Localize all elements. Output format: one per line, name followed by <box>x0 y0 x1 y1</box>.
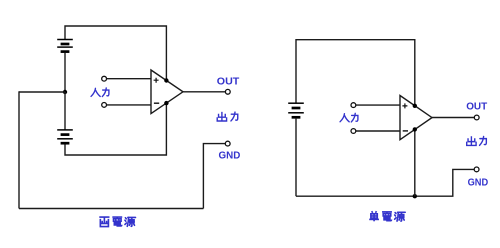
svg-text:OUT: OUT <box>217 77 240 88</box>
wire: U1 minus input <box>107 104 151 106</box>
battery B2 (lower cell pair, left circuit) <box>57 130 73 143</box>
op-amp U1 triangle <box>151 70 183 114</box>
wire: U2 output <box>432 117 474 119</box>
wire: right V+ rail from battery B3 top over to op-amp U2 top edge <box>296 40 415 106</box>
dot: V- rail on U2 lower edge <box>413 127 417 131</box>
wire: junction down to battery B2 <box>64 92 66 131</box>
wire: U2 lower edge down to bottom rail <box>414 130 416 197</box>
wire: U2 minus input <box>356 130 400 132</box>
label: 出力 (output) left circuit <box>217 112 238 121</box>
dot: V- rail on U1 lower edge <box>164 101 168 105</box>
terminal: right circuit GND <box>474 167 479 172</box>
junction dot: mid-supply node <box>63 90 67 94</box>
caption: 単電源 (single supply) <box>369 211 405 221</box>
terminal: left circuit input - <box>102 103 107 108</box>
wire: battery B2 minus to V- rail under op-amp <box>65 103 166 155</box>
wire: battery B1 minus down to junction node <box>64 53 66 92</box>
svg-text:GND: GND <box>468 178 489 189</box>
terminal: left circuit OUT <box>225 89 230 94</box>
battery B1 (upper cell pair, left circuit) <box>57 40 73 52</box>
wire: battery B3 minus down to bottom rail <box>295 119 297 197</box>
label: 出力 (output) right circuit <box>467 136 487 145</box>
junction dot: V- wire on bottom rail <box>413 194 417 198</box>
battery B3 (right circuit, single supply) <box>288 103 304 117</box>
wire: riser up to GND terminal stub <box>203 144 225 209</box>
marker: U2 plus input <box>402 103 407 108</box>
label: 入力 (input) right circuit <box>340 113 358 122</box>
terminal: left circuit input + <box>102 76 107 81</box>
wire: junction left to ground rail <box>19 91 65 93</box>
terminal: right circuit input - <box>351 129 356 134</box>
wire: left V+ rail from battery B1 top over to op-amp U1 top edge <box>65 26 166 80</box>
wire: U2 plus input <box>356 104 400 106</box>
wire: U1 output <box>183 91 225 93</box>
wire: bottom rail of right circuit and riser to GND stub <box>296 169 474 196</box>
wire: left ground rail down <box>18 91 20 208</box>
svg-text:GND: GND <box>219 151 241 162</box>
terminal: right circuit input + <box>351 103 356 108</box>
marker: U2 minus input <box>403 130 408 132</box>
wire: U1 plus input <box>107 78 151 80</box>
marker: U1 plus input <box>154 78 159 83</box>
dot: V+ rail on U1 upper edge <box>164 78 168 82</box>
svg-text:OUT: OUT <box>466 102 487 113</box>
label: 入力 (input) left circuit <box>91 88 109 97</box>
terminal: right circuit OUT <box>474 115 479 120</box>
op-amp U2 triangle <box>400 96 432 140</box>
dot: V+ rail on U2 upper edge <box>413 104 417 108</box>
marker: U1 minus input <box>154 102 159 104</box>
caption: 両電源 (dual supply) <box>99 217 135 227</box>
wire: bottom rail of left circuit <box>19 208 203 210</box>
terminal: left circuit GND <box>225 141 230 146</box>
